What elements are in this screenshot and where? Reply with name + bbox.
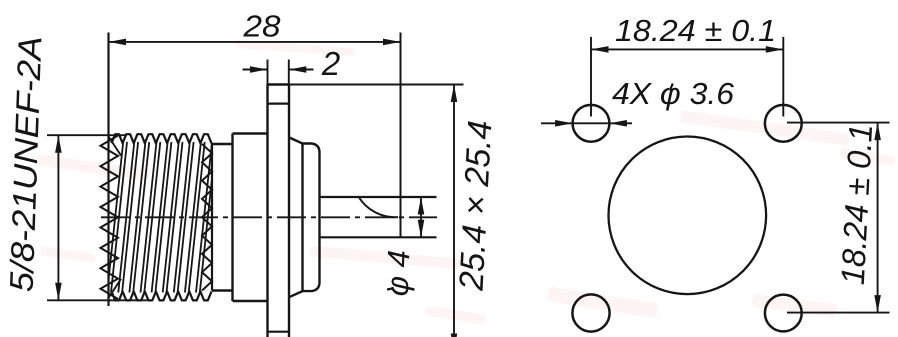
flange mounting hole upper edge [268, 102, 290, 104]
center pin end face / extension line [400, 33, 402, 238]
centerline of connector axis [101, 216, 437, 218]
dimension line 2 [243, 69, 268, 71]
left end face edge / extension line [107, 33, 109, 307]
mounting hole bottom-left [572, 294, 609, 331]
insulator bushing outline [303, 144, 320, 292]
thread flank lines [109, 142, 213, 293]
connector body circle [609, 137, 767, 295]
pin diameter dimension line [420, 197, 422, 237]
center pin bottom edge [320, 236, 437, 238]
rear boss step edge [301, 144, 303, 292]
body top edge [233, 132, 268, 135]
body shoulder edge [231, 134, 233, 302]
flange thickness extension ticks [267, 60, 269, 85]
center pin top edge [320, 196, 437, 198]
thread start zigzag (left edge) [101, 136, 119, 300]
thread crest zigzag (top edge) [112, 134, 212, 143]
hole spacing dimension line (top) [591, 48, 783, 50]
thread flank stub top-left [109, 137, 122, 156]
svg-text:28: 28 [242, 9, 281, 44]
mounting hole top-left [573, 105, 610, 142]
svg-text:18.24 ± 0.1: 18.24 ± 0.1 [615, 13, 776, 48]
svg-text:25.4 × 25.4: 25.4 × 25.4 [453, 120, 500, 293]
body bottom edge [233, 300, 268, 303]
mounting hole top-right [765, 105, 802, 142]
rear boss chamfer (bottom) [289, 291, 303, 297]
flange size dimension line [453, 85, 455, 337]
svg-text:18.24 ± 0.1: 18.24 ± 0.1 [834, 123, 879, 286]
svg-text:φ 4: φ 4 [380, 250, 417, 297]
flange top edge [268, 83, 290, 85]
mounting hole bottom-right [765, 295, 802, 332]
thread end edge [211, 144, 213, 291]
hole spacing dimension line (right) [877, 123, 879, 313]
thread flank stub bottom-left [109, 279, 122, 298]
flange front face edge [266, 85, 268, 337]
flange mounting hole lower edge [268, 331, 290, 333]
hole callout phi ascender stub [670, 84, 673, 91]
relief groove top edge [212, 143, 233, 145]
hole spacing extension lines (top) [590, 37, 592, 117]
hole spacing extension lines (right) [787, 122, 890, 124]
svg-text:4X φ 3.6: 4X φ 3.6 [612, 76, 735, 111]
flange rear face edge [288, 85, 290, 337]
thread diameter dimension line [57, 135, 59, 300]
rear boss chamfer (top) [289, 137, 303, 143]
thread crest zigzag (bottom edge) [112, 291, 212, 300]
dimension line 28 [109, 41, 401, 43]
svg-text:2: 2 [321, 45, 340, 82]
solder cup curve [359, 197, 398, 217]
hole diameter leader arrows [541, 122, 632, 124]
thread diameter extension ticks [47, 134, 126, 136]
pin diameter phi ascender stub [387, 289, 393, 290]
thread runout zigzag (right edge) [202, 144, 212, 291]
flange top extension line [289, 84, 464, 86]
relief groove bottom edge [212, 289, 233, 291]
